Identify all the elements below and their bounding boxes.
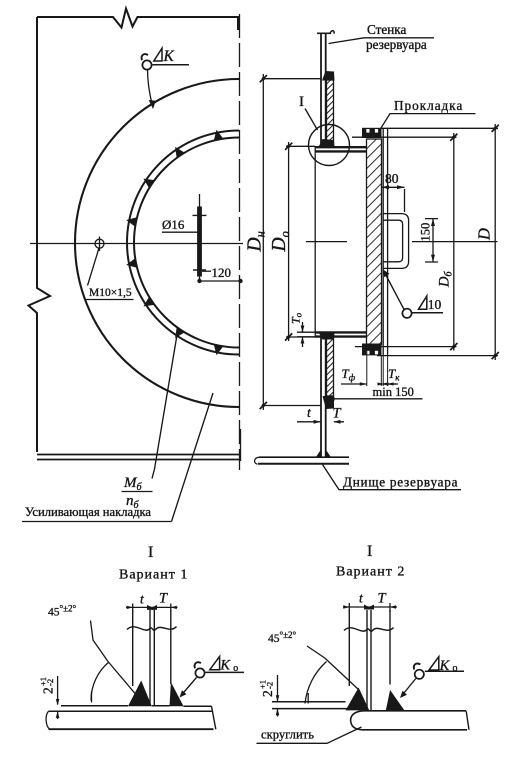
dim min 150 bbox=[327, 398, 423, 400]
angle arc detail 2 bbox=[305, 662, 327, 704]
reinforcing pad outer circle (arc) bbox=[75, 79, 239, 407]
svg-text:K: K bbox=[219, 658, 231, 674]
svg-text:Вариант 1: Вариант 1 bbox=[119, 568, 188, 583]
svg-text:I: I bbox=[299, 94, 304, 110]
svg-text:I: I bbox=[148, 544, 153, 561]
bolt 016 depiction (plan view) bbox=[199, 194, 201, 207]
bolts (plan view, 8 filled triangles) bbox=[125, 129, 223, 357]
bolt 2 (plan) bbox=[171, 144, 185, 158]
svg-text:2: 2 bbox=[41, 687, 56, 694]
svg-text:I: I bbox=[367, 543, 372, 560]
symmetry axis (plan view) bbox=[239, 14, 241, 470]
plate (neck) detail 1 bbox=[61, 705, 212, 708]
leader to bolt label bbox=[152, 335, 177, 479]
weld symbol d10 bbox=[402, 309, 411, 318]
section centerlines bbox=[306, 241, 498, 243]
svg-text:Усиливающая накладка: Усиливающая накладка bbox=[25, 505, 151, 519]
M10 leader bbox=[88, 248, 100, 286]
weld symbol dK (plan) bbox=[142, 48, 189, 105]
bevel line detail 2 bbox=[325, 658, 359, 690]
dim 80 bbox=[382, 187, 405, 212]
dim 2 (root gap) detail 1 bbox=[57, 676, 59, 719]
svg-text:-2: -2 bbox=[265, 682, 275, 689]
svg-text:min 150: min 150 bbox=[373, 385, 414, 399]
pad (T) detail 1 bbox=[153, 610, 155, 706]
svg-text:K: K bbox=[163, 48, 175, 65]
svg-text:T: T bbox=[333, 406, 342, 422]
tank wall (section), upper part bbox=[320, 33, 322, 146]
bottom gasket / bolt (black) bbox=[362, 344, 382, 356]
thick plate with rounded corner detail 2 bbox=[351, 711, 467, 730]
angle arc detail 1 bbox=[91, 662, 109, 700]
svg-text:о: о bbox=[233, 663, 238, 674]
neck left end edge bbox=[314, 146, 316, 338]
dim 2 (root gap) detail 2 bbox=[277, 675, 279, 717]
svg-text:о: о bbox=[453, 663, 458, 674]
svg-text:-2: -2 bbox=[45, 679, 55, 686]
weld left (black) detail 1 bbox=[128, 681, 152, 707]
tank bottom plate bbox=[255, 457, 349, 464]
neck tube top wall (blackened thin section) bbox=[315, 146, 367, 338]
dim Do bbox=[286, 142, 315, 341]
dim 150 bbox=[425, 219, 438, 262]
weld blob wall-neck top bbox=[319, 139, 335, 147]
svg-text:120: 120 bbox=[212, 265, 232, 280]
reinforcing pad on wall, upper strip (hatched) bbox=[327, 80, 334, 146]
svg-text:T: T bbox=[159, 591, 168, 607]
bolt 6 (plan) bbox=[141, 296, 155, 310]
svg-text:80: 80 bbox=[385, 171, 399, 186]
flange ring (hatched section) bbox=[367, 139, 382, 345]
pad bottom weld blob bbox=[323, 396, 335, 409]
bolt 7 (plan) bbox=[171, 327, 185, 341]
bevel line 45deg bbox=[108, 662, 141, 701]
thin sheet lines detail 2 bbox=[272, 701, 346, 703]
svg-text:резервуара: резервуара bbox=[366, 37, 427, 52]
bolt ring outer arc bbox=[127, 131, 239, 355]
svg-text:2: 2 bbox=[260, 690, 275, 697]
dim t T detail 2 bbox=[343, 603, 397, 612]
dims Tf Tk bbox=[367, 345, 388, 386]
weld right (black) detail 2 bbox=[386, 690, 405, 710]
svg-text:Вариант 2: Вариант 2 bbox=[336, 565, 405, 580]
neck tube bottom wall bbox=[315, 331, 367, 333]
bolt 1 (plan) bbox=[212, 129, 224, 141]
svg-text:10: 10 bbox=[428, 297, 442, 312]
weld symbol dKo detail 2 bbox=[415, 670, 424, 679]
bolt 3 (plan) bbox=[141, 174, 155, 188]
detail circle I bbox=[309, 125, 350, 166]
bolt 5 (plan) bbox=[125, 258, 137, 270]
wall (t) detail 1 bbox=[132, 610, 134, 686]
top gasket / bolt (black) bbox=[362, 128, 382, 138]
wall plate outline (plan view) with break lines bbox=[37, 9, 238, 31]
svg-text:Днище резервуара: Днище резервуара bbox=[343, 475, 458, 490]
dims t T at wall bbox=[297, 421, 344, 423]
svg-text:Стенка: Стенка bbox=[367, 22, 407, 37]
dim Db bbox=[352, 133, 457, 351]
weld blob wall-neck bottom bbox=[319, 332, 335, 339]
dim D bbox=[377, 124, 498, 360]
bolt ring inner arc bbox=[134, 138, 239, 348]
svg-text:K: K bbox=[439, 658, 451, 674]
svg-text:M10×1,5: M10×1,5 bbox=[89, 287, 132, 299]
label: tank bottom bbox=[323, 465, 462, 490]
wall (t) detail 2 bbox=[348, 610, 350, 686]
pad top weld blob bbox=[322, 71, 335, 81]
bolt 4 (plan) bbox=[125, 215, 137, 227]
svg-text:Прокладка: Прокладка bbox=[394, 98, 463, 113]
svg-text:T: T bbox=[378, 591, 387, 607]
svg-text:Ø16: Ø16 bbox=[162, 217, 185, 232]
handle on cover bbox=[384, 214, 409, 269]
cover plate bbox=[383, 128, 408, 355]
bolt 8 (plan) bbox=[212, 344, 224, 356]
svg-text:150: 150 bbox=[419, 223, 433, 242]
M10 hole bbox=[88, 237, 105, 286]
dim To bbox=[297, 322, 315, 347]
plate bottom edge (double line) bbox=[37, 454, 241, 456]
weld right (black) detail 1 bbox=[170, 682, 184, 706]
pad (T) detail 2 bbox=[370, 610, 372, 710]
dim Dn bbox=[263, 74, 321, 410]
svg-text:D: D bbox=[475, 228, 494, 241]
wall top cap bbox=[317, 32, 331, 34]
svg-text:скруглить: скруглить bbox=[261, 728, 314, 742]
reinforcing pad on wall, lower strip (hatched) bbox=[327, 337, 334, 396]
horizontal centerline (plan view) bbox=[30, 243, 243, 245]
weld symbol dKo detail 1 bbox=[195, 668, 204, 677]
dim t T detail 1 bbox=[126, 604, 178, 613]
plate bottom right end tick bbox=[240, 429, 242, 461]
wall to bottom weld bbox=[316, 450, 321, 458]
break wave across wall and pad bbox=[127, 627, 177, 631]
dim 120 bbox=[202, 270, 211, 272]
leader to pad label bbox=[172, 393, 214, 522]
break wave detail 2 bbox=[344, 628, 394, 632]
weld left (black) detail 2 bbox=[346, 688, 370, 711]
tank wall (section), lower part bbox=[320, 337, 322, 457]
